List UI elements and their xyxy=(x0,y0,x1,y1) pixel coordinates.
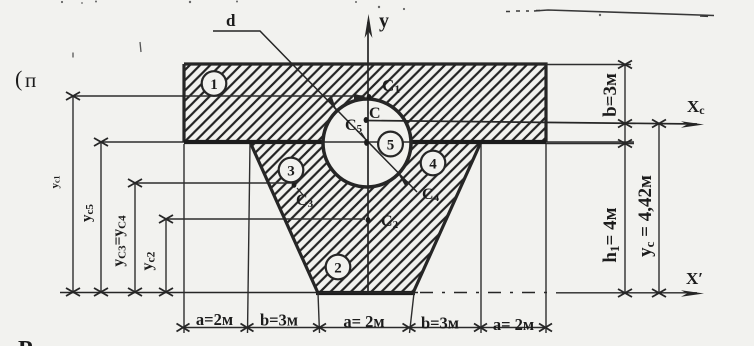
level line yc1 (through C1) xyxy=(73,95,364,97)
level line yc3=yc4 (through C3) xyxy=(135,182,292,184)
rectangle bottom thick edge (interrupted by hole) xyxy=(184,140,546,144)
Xc axis xyxy=(366,121,697,125)
svg-text:C: C xyxy=(369,105,381,122)
rectangle outline (part 1) xyxy=(184,64,546,142)
bottom dimension line xyxy=(183,327,546,329)
svg-text:(: ( xyxy=(15,66,22,91)
bottom extension verticals xyxy=(184,144,546,333)
left dimension line yc2 xyxy=(165,219,167,292)
left dimension line yc3=yc4 xyxy=(134,183,136,292)
ticks yc5 dim xyxy=(94,138,108,146)
circular hole outline (part 5) xyxy=(323,99,411,187)
ticks on x=659 dim xyxy=(652,120,666,128)
circled part number 4 xyxy=(421,151,446,176)
left dimension line yc1 xyxy=(72,96,74,292)
tick arrows (X style) xyxy=(66,92,173,296)
ticks yc1 dim xyxy=(66,92,80,100)
scan specks xyxy=(61,1,609,106)
circled part number 3 xyxy=(279,158,304,183)
right top extension line xyxy=(546,64,631,66)
svg-text:yc1: yc1 xyxy=(49,175,62,188)
svg-text:a= 2м: a= 2м xyxy=(493,315,534,334)
svg-text:5: 5 xyxy=(387,138,395,154)
scan artifact: top right line xyxy=(506,11,540,12)
trapezoid outline (parts 2,3,4) xyxy=(250,142,481,293)
right mid extension line (rect bottom level) xyxy=(546,143,634,145)
svg-text:Р: Р xyxy=(18,337,33,346)
centroid dot C (section centroid) xyxy=(364,117,369,123)
svg-text:4: 4 xyxy=(429,157,437,173)
svg-text:a=2м: a=2м xyxy=(196,310,233,329)
circled part number 1 xyxy=(202,71,227,96)
svg-text:yC3=yC4: yC3=yC4 xyxy=(110,215,129,267)
svg-text:X′: X′ xyxy=(686,269,703,288)
ticks yc2 dim xyxy=(159,215,173,223)
svg-text:y: y xyxy=(379,10,389,32)
ticks yc3=yc4 dim xyxy=(128,179,142,187)
right dimension line yc at x=659 xyxy=(658,124,660,294)
level line yc5 (through C5 / bottom of rectangle, extends left and right) xyxy=(101,141,634,143)
bottom ticks xyxy=(177,324,190,332)
right dimension line b/h1 at x=625 xyxy=(624,65,626,294)
svg-text:a= 2м: a= 2м xyxy=(343,312,384,331)
arrowhead on yc1 line at C1 xyxy=(354,94,366,100)
leader C5 to dot xyxy=(361,133,366,141)
svg-text:Xc: Xc xyxy=(687,97,705,117)
svg-text:C5: C5 xyxy=(345,117,363,135)
svg-text:1: 1 xyxy=(210,77,218,93)
svg-text:3: 3 xyxy=(287,164,295,180)
leader tick C3 xyxy=(297,188,303,195)
centroid dot C1 xyxy=(367,94,372,100)
y axis xyxy=(367,22,369,292)
svg-text:yc = 4,42м: yc = 4,42м xyxy=(635,175,657,257)
svg-text:b=3м: b=3м xyxy=(600,73,621,117)
centroid dot C5 (circle center) xyxy=(364,139,369,146)
centroid dot C2 xyxy=(366,217,371,223)
centroid dot C3 xyxy=(292,182,297,188)
svg-text:yc5: yc5 xyxy=(79,204,96,222)
svg-text:2: 2 xyxy=(334,261,342,277)
X' axis (bottom reference line) xyxy=(60,292,418,294)
ticks on x=625 dim xyxy=(618,61,632,69)
svg-text:yc2: yc2 xyxy=(139,251,158,270)
level line yc2 (through C2) xyxy=(166,218,365,220)
svg-text:п: п xyxy=(25,68,36,92)
left dimension line yc5 xyxy=(100,142,102,292)
d leader line xyxy=(213,31,417,192)
d leader arrowhead at circle upper edge xyxy=(327,96,337,113)
circled part number 2 xyxy=(326,255,351,280)
svg-text:h1= 4м: h1= 4м xyxy=(600,207,622,262)
d line arrowhead at lower circle edge xyxy=(399,175,410,187)
svg-text:b=3м: b=3м xyxy=(421,314,459,333)
trapezoid bottom thick edge xyxy=(316,291,415,295)
circled part number 5 xyxy=(378,132,403,157)
hatched composite section (rectangle + trapezoid with circular hole) xyxy=(184,64,546,293)
svg-text:b=3м: b=3м xyxy=(260,311,298,330)
scan artifact: small tick left xyxy=(73,42,141,58)
svg-text:d: d xyxy=(226,11,236,30)
